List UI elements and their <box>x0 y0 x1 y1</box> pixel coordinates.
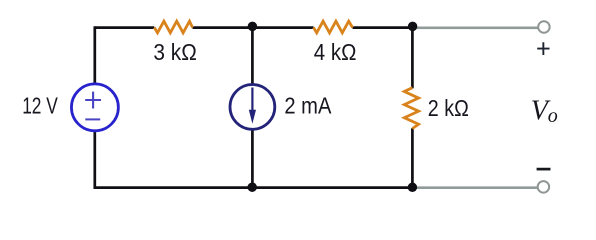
node top middle <box>248 22 258 32</box>
minus sign output terminal <box>537 168 551 171</box>
voltage source V1 circle <box>71 84 118 131</box>
node bottom right <box>408 183 418 193</box>
svg-text:12 V: 12 V <box>22 93 58 119</box>
wire middle vertical upper <box>251 28 254 84</box>
wire middle vertical lower <box>251 130 254 187</box>
resistor R3 2 kOhm vertical zigzag <box>404 88 418 129</box>
wire right vertical lower <box>411 128 414 187</box>
svg-text:3 kΩ: 3 kΩ <box>153 39 196 65</box>
wire gray bottom (right node to - terminal) <box>412 186 538 189</box>
wire bottom horizontal <box>95 186 414 189</box>
svg-text:2 mA: 2 mA <box>284 93 332 119</box>
wire gray top (right node to + terminal) <box>412 26 538 29</box>
current source I1 circle <box>230 85 275 130</box>
wire top middle (between 3k and 4k resistors) <box>193 26 314 29</box>
plus sign output terminal <box>537 42 549 55</box>
wire top-left horizontal (left rail to 3k) <box>95 26 155 29</box>
terminal circle bottom (-) <box>538 181 550 193</box>
wire left vertical lower <box>93 131 96 189</box>
current source arrow head <box>249 110 256 124</box>
svg-text:Vo: Vo <box>531 96 558 127</box>
wire right vertical upper <box>411 28 414 89</box>
wire left vertical upper <box>93 26 96 83</box>
node bottom middle <box>247 182 257 192</box>
terminal circle top (+) <box>538 21 550 33</box>
voltage source plus sign <box>85 92 101 109</box>
svg-text:4 kΩ: 4 kΩ <box>314 39 357 65</box>
svg-text:2 kΩ: 2 kΩ <box>428 95 469 121</box>
node top right <box>408 22 418 32</box>
voltage source minus sign <box>85 118 100 120</box>
wire top right (4k resistor to right node) <box>353 26 414 29</box>
current source arrow shaft <box>251 88 253 113</box>
resistor R2 4 kOhm zigzag <box>314 21 353 33</box>
resistor R1 3 kOhm zigzag <box>154 21 192 33</box>
